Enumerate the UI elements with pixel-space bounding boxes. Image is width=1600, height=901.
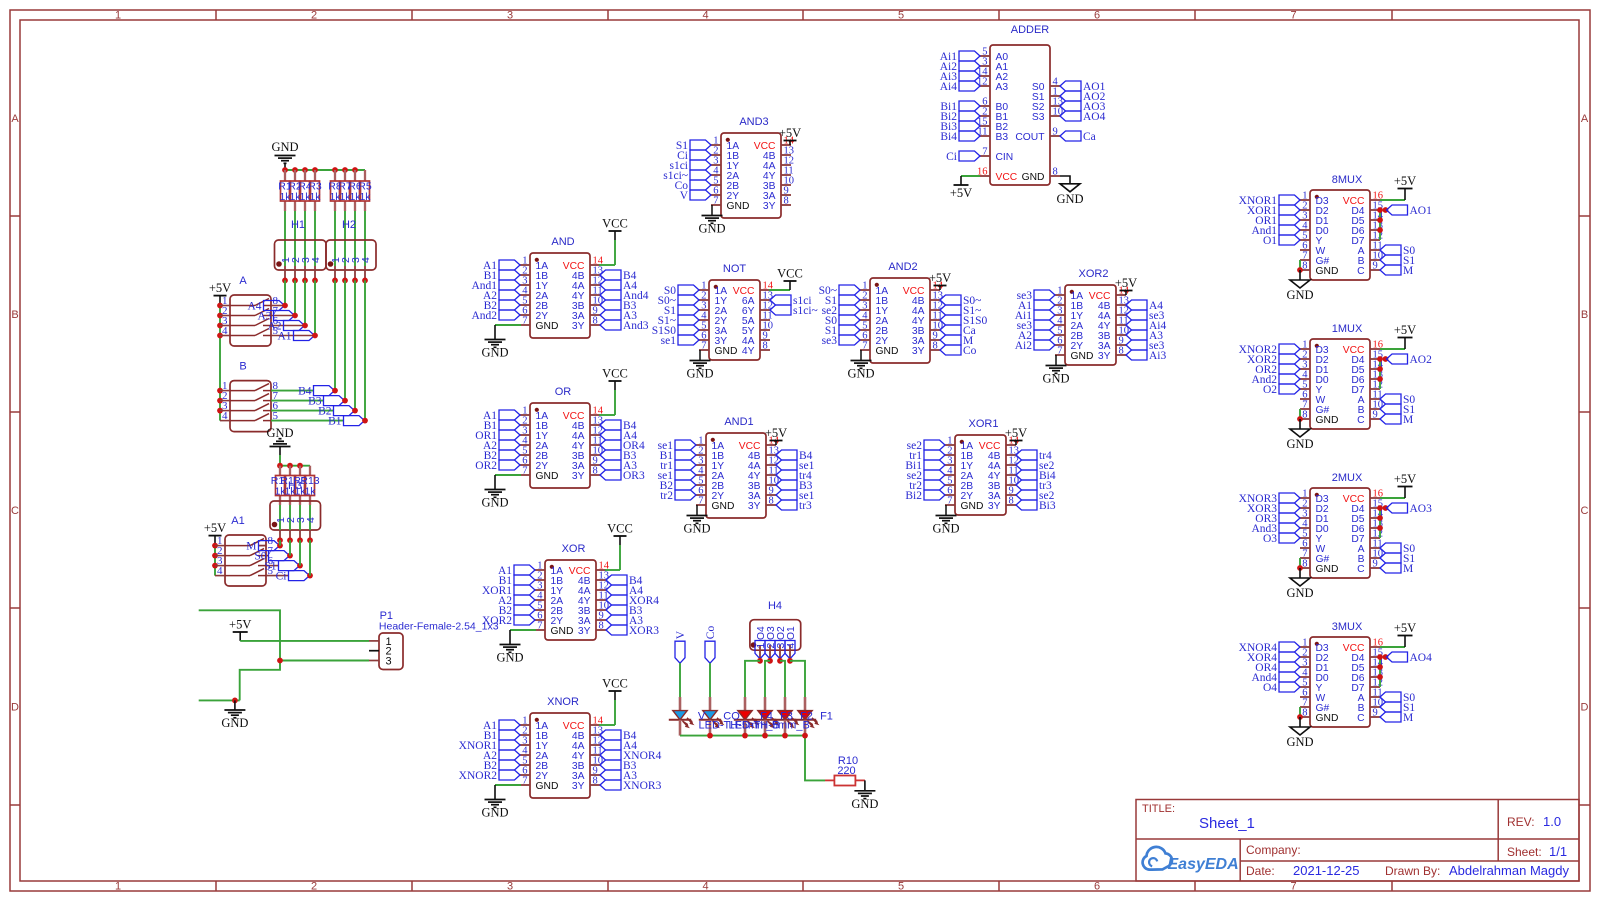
net flag se2 (822, 305, 860, 317)
net flag tr1 (660, 460, 696, 472)
wire (619, 536, 621, 545)
net flag XNOR2 (459, 770, 520, 782)
net flag B3 (600, 300, 637, 312)
net flag AO2 (1387, 354, 1433, 366)
pin 9 (3A) (748, 486, 776, 502)
IC XOR (545, 543, 596, 640)
net flag A1 (277, 331, 314, 343)
net flag S0 (825, 315, 860, 327)
wire (599, 724, 615, 726)
wire (860, 350, 862, 360)
net flag S1 (825, 325, 860, 337)
net flag A4 (600, 430, 637, 442)
junction (1377, 227, 1383, 233)
wire (495, 324, 521, 326)
svg-text:9: 9 (1373, 708, 1378, 719)
wire (789, 289, 791, 291)
svg-text:B1: B1 (328, 416, 342, 428)
net flag O4 (1263, 682, 1300, 694)
wire (1380, 199, 1405, 201)
wire (1125, 291, 1127, 296)
net flag AO4 (1387, 652, 1433, 664)
svg-text:GND: GND (683, 522, 710, 536)
junction (362, 418, 368, 424)
pin 6 (3Y) (699, 331, 727, 347)
LED V (669, 697, 693, 736)
net flag Co (940, 345, 977, 357)
pin 2 (1B) (535, 571, 563, 587)
svg-text:AND3: AND3 (739, 116, 768, 128)
wire (354, 211, 356, 266)
junction (1297, 267, 1303, 273)
wire (199, 699, 240, 701)
net flag S0 (1380, 394, 1415, 406)
svg-text:AO4: AO4 (1083, 111, 1106, 123)
wire (364, 280, 366, 420)
pin 9 (C) (1357, 410, 1380, 426)
svg-text:OR: OR (555, 386, 572, 398)
net flag A3 (600, 770, 637, 782)
pin 1 (D3) (1300, 340, 1329, 356)
net flag S0 (254, 551, 289, 563)
wire (494, 325, 496, 339)
junction (352, 408, 358, 414)
junction (217, 398, 223, 404)
junction (307, 537, 313, 543)
net flag se2 (1016, 490, 1055, 502)
svg-text:OR3: OR3 (623, 470, 645, 482)
svg-text:+5V: +5V (209, 281, 231, 295)
net flag M (1380, 414, 1413, 426)
pin 4 (S0) (1032, 77, 1060, 93)
net flag O4 (755, 641, 765, 659)
pin 13 (4B) (1098, 296, 1129, 312)
pin 9 (4A) (742, 331, 770, 347)
pin 11 (4Y) (748, 466, 779, 482)
svg-text:GND: GND (551, 626, 574, 637)
net flag And4 (1251, 672, 1300, 684)
svg-text:C: C (1357, 564, 1365, 575)
power +5V (229, 618, 251, 641)
wire (1060, 176, 1070, 184)
junction (217, 388, 223, 394)
svg-text:GND: GND (876, 346, 899, 357)
svg-text:GND: GND (847, 367, 874, 381)
pin 9 (3A) (572, 456, 600, 472)
svg-text:A3: A3 (996, 82, 1009, 93)
svg-text:COUT: COUT (1015, 132, 1045, 143)
resistor R8 1k (328, 170, 342, 211)
net flag se1 (658, 470, 696, 482)
svg-text:+5V: +5V (1115, 276, 1137, 290)
pin 4 (D0) (1300, 221, 1329, 237)
pin 10 (B) (1358, 251, 1383, 267)
wire (344, 211, 346, 266)
svg-text:V: V (675, 630, 687, 639)
junction (282, 303, 288, 309)
net flag O1 (1263, 235, 1300, 247)
pin 2 (1B) (860, 291, 888, 307)
svg-text:5: 5 (898, 881, 904, 893)
wire (220, 315, 230, 317)
pin 13 (4B) (748, 446, 779, 462)
pin 7 (GND) (1055, 346, 1093, 362)
wire (299, 540, 301, 565)
wire (284, 211, 286, 266)
pin 14 (VCC) (1089, 286, 1130, 302)
pin 5 (2B) (696, 476, 724, 492)
net flag S0~ (940, 295, 981, 307)
net flag A1 (498, 565, 535, 577)
svg-text:8: 8 (933, 341, 938, 352)
pin 12 (4A) (1098, 306, 1129, 322)
junction (297, 463, 303, 469)
pin 14 (VCC) (563, 256, 604, 272)
svg-text:B: B (1581, 309, 1588, 321)
pin 5 (2B) (1055, 326, 1083, 342)
svg-text:AO2: AO2 (1410, 354, 1433, 366)
pin 9 (C) (1357, 708, 1380, 724)
svg-text:+5V: +5V (765, 426, 787, 440)
wire (314, 211, 316, 266)
svg-text:1MUX: 1MUX (1332, 323, 1363, 335)
svg-text:H1: H1 (291, 219, 305, 231)
resistor R13 1k (300, 466, 319, 505)
power VCC (602, 367, 628, 382)
net flag AO3 (1060, 101, 1106, 113)
pin 1 (1A) (945, 436, 973, 452)
svg-text:8: 8 (593, 466, 598, 477)
svg-text:3Y: 3Y (763, 201, 776, 212)
pin 15 (D4) (1351, 350, 1383, 366)
net flag tr4 (1016, 450, 1052, 462)
junction (292, 278, 298, 284)
net flag And3 (600, 320, 649, 332)
pin 8 (3Y) (748, 496, 776, 512)
svg-text:GND: GND (536, 471, 559, 482)
svg-text:XOR1: XOR1 (969, 418, 999, 430)
svg-text:REV:: REV: (1507, 815, 1535, 829)
resistor R1 1k (278, 170, 292, 211)
wire (789, 141, 791, 146)
pin 3 (1Y) (520, 276, 548, 292)
net flag Bi3 (940, 121, 980, 133)
svg-text:6: 6 (1094, 881, 1100, 893)
wire (199, 610, 280, 700)
net flag A3 (257, 311, 294, 323)
svg-text:+5V: +5V (204, 521, 226, 535)
net flag Ci (276, 571, 310, 583)
wire (294, 280, 296, 315)
wire (266, 555, 269, 557)
svg-text:8: 8 (599, 621, 604, 632)
connector H1 (275, 219, 327, 280)
power VCC (602, 217, 628, 232)
junction (802, 733, 808, 739)
pin 6 (B0) (980, 97, 1008, 113)
svg-text:4: 4 (310, 257, 322, 263)
junction (332, 167, 338, 173)
net flag S1 (1380, 553, 1415, 565)
svg-text:GND: GND (715, 346, 738, 357)
wire (945, 505, 947, 515)
svg-text:1: 1 (115, 881, 121, 893)
svg-text:VCC: VCC (602, 367, 628, 381)
wire (789, 281, 791, 290)
pin 6 (2Y) (1055, 336, 1083, 352)
svg-text:ADDER: ADDER (1011, 24, 1050, 36)
wire (271, 335, 315, 337)
junction (767, 658, 773, 664)
svg-text:2: 2 (311, 881, 317, 893)
wire (215, 555, 225, 557)
pin 12 (D7) (1351, 529, 1383, 545)
wire (220, 335, 230, 337)
pin 5 (Y) (1300, 678, 1323, 694)
pin 1 (1A) (860, 281, 888, 297)
net flag And1 (471, 280, 520, 292)
svg-text:1k: 1k (304, 486, 316, 498)
power +5V (1394, 621, 1416, 647)
junction (1377, 505, 1383, 511)
pin 8 (3Y) (572, 466, 600, 482)
svg-text:GND: GND (1286, 437, 1313, 451)
pin 14 (VCC) (569, 561, 610, 577)
wire (304, 280, 306, 325)
svg-text:CIN: CIN (996, 152, 1014, 163)
pin 5 (A0) (980, 47, 1008, 63)
net flag Bi4 (940, 131, 980, 143)
net flag XOR4 (606, 595, 659, 607)
pin 16 (VCC) (1343, 638, 1383, 654)
pin 14 (VCC) (979, 436, 1020, 452)
pin 10 (3B) (1098, 326, 1129, 342)
wire (495, 784, 521, 786)
connector H4 (750, 600, 801, 661)
net flag se3 (822, 335, 860, 347)
net flag XOR2 (1247, 354, 1300, 366)
pin 3 (1Y) (1055, 306, 1083, 322)
junction (217, 408, 223, 414)
net flag AO2 (1060, 91, 1106, 103)
wire (314, 280, 316, 335)
resistor R4 1k (298, 170, 312, 211)
svg-text:C: C (11, 505, 19, 517)
pin 3 (1Y) (860, 301, 888, 317)
junction (342, 398, 348, 404)
pin 9 (3A) (988, 486, 1016, 502)
svg-text:M: M (1403, 414, 1413, 426)
svg-text:GND: GND (481, 346, 508, 360)
svg-text:O1: O1 (786, 626, 797, 640)
net flag Ca (940, 325, 976, 337)
net flag And4 (600, 290, 649, 302)
junction (1383, 654, 1389, 660)
svg-text:8: 8 (1302, 708, 1307, 719)
net flag S1 (676, 140, 711, 152)
junction (342, 167, 348, 173)
junction (1377, 207, 1383, 213)
pin 3 (1Y) (945, 456, 973, 472)
net flag B1 (660, 450, 696, 462)
svg-text:LED-TH-5mm_B: LED-TH-5mm_B (729, 720, 810, 732)
pin 13 (6A) (742, 291, 773, 307)
wire (271, 420, 344, 422)
wire (680, 736, 825, 781)
svg-text:Drawn By:: Drawn By: (1385, 864, 1440, 878)
pin 7 (GND) (520, 316, 558, 332)
ground (1286, 578, 1313, 600)
pin 10 (3B) (572, 756, 603, 772)
net flag And2 (1251, 374, 1300, 386)
pin 14 (VCC) (563, 406, 604, 422)
net flag A2 (483, 290, 520, 302)
pin 6 (W) (1300, 688, 1326, 704)
net flag M (940, 335, 973, 347)
wire (614, 381, 616, 390)
svg-text:GND: GND (1022, 172, 1045, 183)
svg-text:F1: F1 (820, 711, 833, 723)
junction (362, 278, 368, 284)
IC 8MUX (1310, 174, 1370, 280)
net flag OR2 (1255, 364, 1300, 376)
wire (1379, 359, 1381, 389)
wire (279, 540, 281, 545)
pin 2 (1B) (945, 446, 973, 462)
pin 10 (B) (1358, 698, 1383, 714)
ground (932, 516, 959, 536)
svg-text:GND: GND (1071, 351, 1094, 362)
net flag B3 (308, 396, 344, 408)
wire (354, 280, 356, 410)
junction (1377, 217, 1383, 223)
net flag A4 (600, 740, 637, 752)
pin 15 (D4) (1351, 648, 1383, 664)
net flag B4 (600, 730, 637, 742)
net flag XNOR3 (1239, 493, 1300, 505)
pin 6 (2Y) (945, 486, 973, 502)
junction (302, 278, 308, 284)
junction (1383, 505, 1389, 511)
pin 12 (A3) (977, 77, 1008, 93)
pin 10 (S3) (1032, 107, 1063, 123)
net flag XNOR4 (600, 750, 662, 762)
junction (217, 303, 223, 309)
svg-text:5: 5 (898, 10, 904, 22)
junction (757, 658, 763, 664)
pin 4 (2A) (860, 311, 888, 327)
net flag S1 (1380, 404, 1415, 416)
pin 5 (Y) (1300, 380, 1323, 396)
junction (707, 733, 713, 739)
svg-text:GND: GND (1042, 372, 1069, 386)
svg-text:H2: H2 (342, 219, 356, 231)
svg-text:Abdelrahman Magdy: Abdelrahman Magdy (1449, 863, 1569, 878)
pin 5 (2B) (520, 446, 548, 462)
svg-text:GND: GND (496, 651, 523, 665)
svg-text:B: B (11, 309, 18, 321)
svg-text:GND: GND (712, 501, 735, 512)
net flag S0 (1380, 245, 1415, 257)
pin 4 (2A) (520, 436, 548, 452)
wire (284, 280, 286, 305)
svg-text:3Y: 3Y (912, 346, 925, 357)
pin 1 (1A) (696, 436, 724, 452)
net flag M (246, 541, 279, 553)
pin 12 (D7) (1351, 678, 1383, 694)
net flag B1 (484, 270, 520, 282)
pin 5 (2B) (535, 601, 563, 617)
net flag XNOR2 (1239, 344, 1300, 356)
net flag B3 (600, 760, 637, 772)
pin 8 (3Y) (572, 776, 600, 792)
wire (599, 414, 615, 416)
pin 9 (C) (1357, 559, 1380, 575)
svg-text:3Y: 3Y (578, 626, 591, 637)
net flag B1 (499, 575, 535, 587)
svg-text:se3: se3 (822, 335, 838, 347)
pin 10 (B) (1358, 549, 1383, 565)
ground (698, 216, 725, 236)
svg-text:Ca: Ca (1083, 131, 1096, 143)
net flag O3 (765, 641, 775, 659)
net flag AO1 (1387, 205, 1433, 217)
pin 12 (4A) (748, 456, 779, 472)
wire (364, 211, 366, 266)
wire (510, 629, 536, 631)
junction (297, 563, 303, 569)
wire (790, 661, 805, 697)
pin 1 (1A) (1055, 286, 1083, 302)
pin 8 (GND) (1300, 708, 1338, 724)
net flag OR1 (1255, 215, 1300, 227)
IC AND2 (870, 261, 930, 363)
junction (332, 388, 338, 394)
switch A (222, 275, 279, 346)
pin 3 (1Y) (696, 456, 724, 472)
junction (1377, 654, 1383, 660)
junction (217, 323, 223, 329)
pin 4 (2A) (535, 591, 563, 607)
net flag se3 (1017, 320, 1055, 332)
pin 7 (G#) (1300, 400, 1330, 416)
pin 14 (D5) (1351, 360, 1383, 376)
wire (614, 240, 616, 265)
net flag Ai4 (940, 81, 980, 93)
pin 9 (3A) (572, 306, 600, 322)
net flag S0 (1380, 543, 1415, 555)
pin 13 (4B) (763, 146, 794, 162)
svg-text:1: 1 (115, 10, 121, 22)
net flag A4 (1126, 300, 1163, 312)
pin 12 (4A) (763, 156, 794, 172)
pin 2 (D2) (1300, 350, 1329, 366)
pin 8 (3Y) (1098, 346, 1126, 362)
LED F4 (734, 697, 758, 736)
pin 12 (4A) (572, 276, 603, 292)
junction (297, 537, 303, 543)
pin 12 (4A) (988, 456, 1019, 472)
pin 12 (4A) (572, 426, 603, 442)
svg-text:7: 7 (698, 496, 703, 507)
pin 9 (C) (1357, 261, 1380, 277)
svg-text:AO3: AO3 (1410, 503, 1433, 515)
net flag A3 (600, 310, 637, 322)
net flag B1 (484, 730, 520, 742)
svg-text:Header-Female-2.54_1x3: Header-Female-2.54_1x3 (379, 621, 499, 633)
svg-text:TITLE:: TITLE: (1142, 803, 1175, 815)
wire (1015, 441, 1017, 446)
